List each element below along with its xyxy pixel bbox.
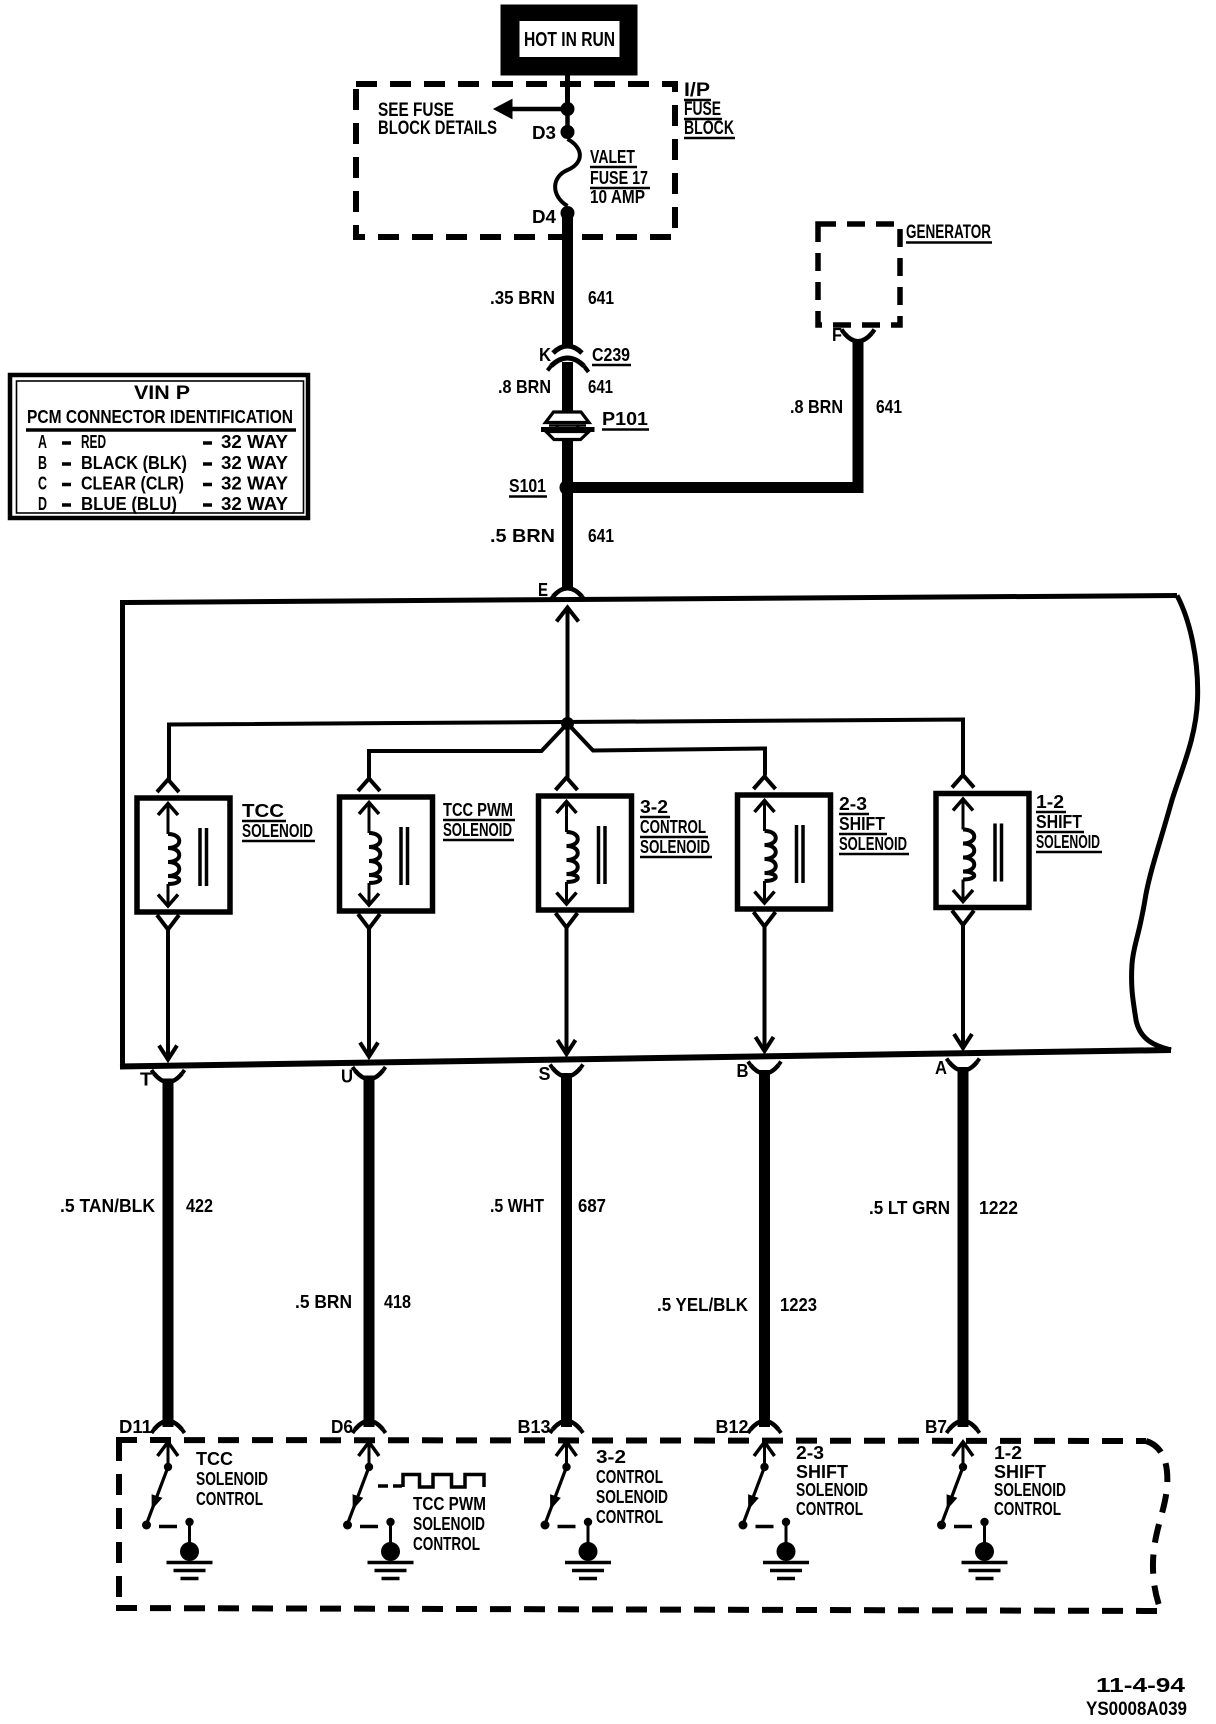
pin F of generator: [832, 325, 875, 345]
svg-text:32 WAY: 32 WAY: [221, 453, 288, 473]
svg-text:B: B: [38, 453, 47, 473]
svg-text:RED: RED: [81, 432, 106, 452]
1-2 shift solenoid control switch: [937, 1442, 973, 1530]
wire .35 BRN 641 (D4 to C239): [490, 213, 614, 346]
date 11-4-94: [1096, 1675, 1186, 1697]
wire .5 TAN/BLK 422: [60, 1079, 213, 1428]
svg-text:641: 641: [588, 288, 614, 308]
ground: [962, 1518, 1008, 1579]
pin E of PCM: [538, 580, 585, 601]
wire P101 to splice: [562, 439, 573, 587]
ground: [368, 1518, 414, 1579]
svg-text:CONTROL: CONTROL: [994, 1499, 1061, 1519]
ground: [167, 1518, 213, 1579]
svg-text:TCC: TCC: [196, 1449, 233, 1469]
wire solenoid 1-2 shift to output pin: [954, 925, 972, 1048]
svg-text:S: S: [539, 1064, 551, 1084]
pin D3: [532, 123, 575, 143]
svg-text:D4: D4: [532, 207, 556, 227]
label TCC SOLENOID CONTROL: [196, 1449, 268, 1509]
svg-text:11-4-94: 11-4-94: [1096, 1675, 1186, 1697]
svg-text:B: B: [737, 1061, 749, 1081]
solenoid TCC: [137, 780, 230, 930]
svg-text:A: A: [935, 1058, 947, 1078]
svg-text:SOLENOID: SOLENOID: [413, 1514, 485, 1534]
svg-text:.5 YEL/BLK: .5 YEL/BLK: [657, 1295, 748, 1315]
svg-text:BLOCK: BLOCK: [684, 118, 734, 139]
svg-text:B7: B7: [925, 1417, 947, 1437]
I/P fuse block dashed box: [356, 84, 675, 237]
wire .5 LT GRN 1222: [869, 1067, 1018, 1427]
svg-text:1222: 1222: [979, 1198, 1018, 1218]
svg-text:TCC PWM: TCC PWM: [413, 1494, 486, 1514]
pin B13 of transmission connector: [518, 1417, 584, 1437]
label TCC PWM SOLENOID: [443, 800, 515, 840]
PWM waveform: [378, 1475, 484, 1488]
internal bus wire lower (TCC PWM and 2-3): [369, 724, 765, 780]
pin S of PCM: [539, 1064, 584, 1084]
svg-text:BLOCK DETAILS: BLOCK DETAILS: [378, 118, 497, 139]
svg-text:PCM CONNECTOR IDENTIFICATION: PCM CONNECTOR IDENTIFICATION: [27, 407, 293, 427]
svg-text:418: 418: [384, 1292, 411, 1312]
svg-text:422: 422: [186, 1196, 213, 1216]
label 1-2 SHIFT SOLENOID CONTROL: [994, 1443, 1066, 1519]
label TCC SOLENOID: [242, 801, 315, 841]
svg-text:YS0008A039: YS0008A039: [1086, 1699, 1187, 1720]
svg-text:.5 BRN: .5 BRN: [490, 526, 555, 546]
svg-text:32 WAY: 32 WAY: [221, 494, 288, 514]
internal bus wire upper (TCC and 1-2): [169, 720, 963, 781]
wire solenoid 2-3 shift to output pin: [756, 927, 774, 1052]
wire from S101 to generator: [568, 340, 859, 493]
svg-text:32 WAY: 32 WAY: [221, 474, 288, 494]
ground: [763, 1518, 809, 1579]
svg-text:1223: 1223: [780, 1295, 817, 1315]
wire from junction to 3-2 solenoid: [566, 724, 570, 778]
wire .5 YEL/BLK 1223: [657, 1070, 817, 1427]
label 2-3 SHIFT SOLENOID CONTROL: [796, 1443, 868, 1519]
arrow to SEE FUSE BLOCK DETAILS: [378, 100, 568, 140]
pin B7 of transmission connector: [925, 1417, 980, 1437]
pin T of PCM: [140, 1070, 185, 1090]
label TCC PWM SOLENOID CONTROL: [413, 1494, 486, 1554]
junction node inside PCM: [561, 717, 574, 730]
svg-text:BLUE (BLU): BLUE (BLU): [81, 494, 177, 514]
svg-text:C: C: [38, 474, 47, 494]
VIN P PCM connector identification table: [10, 375, 308, 518]
svg-text:BLACK (BLK): BLACK (BLK): [81, 453, 187, 473]
svg-text:CONTROL: CONTROL: [596, 1467, 663, 1487]
svg-text:SOLENOID: SOLENOID: [796, 1480, 868, 1500]
svg-text:2-3: 2-3: [796, 1443, 824, 1463]
label GENERATOR: [906, 222, 992, 243]
wire .5 WHT 687: [490, 1073, 606, 1427]
2-3 shift solenoid control switch: [739, 1442, 775, 1530]
pin D6 of transmission connector: [331, 1417, 386, 1437]
svg-text:CONTROL: CONTROL: [640, 817, 706, 837]
svg-text:VALET: VALET: [590, 147, 635, 167]
svg-text:10 AMP: 10 AMP: [590, 187, 645, 207]
svg-text:SOLENOID: SOLENOID: [640, 837, 710, 857]
svg-text:E: E: [538, 580, 548, 600]
label 3-2 CONTROL SOLENOID CONTROL: [596, 1447, 668, 1527]
TCC solenoid control switch: [142, 1442, 178, 1530]
splice S101: [509, 476, 576, 497]
svg-text:FUSE: FUSE: [684, 99, 721, 120]
svg-text:SHIFT: SHIFT: [839, 814, 885, 834]
svg-text:B12: B12: [716, 1417, 749, 1437]
svg-text:SHIFT: SHIFT: [1036, 812, 1082, 832]
wire from HOT IN RUN to fuse block: [565, 75, 570, 110]
svg-text:SOLENOID: SOLENOID: [839, 834, 907, 854]
svg-text:3-2: 3-2: [596, 1447, 626, 1467]
svg-text:1-2: 1-2: [994, 1443, 1022, 1463]
svg-text:VIN P: VIN P: [134, 383, 190, 404]
svg-text:CONTROL: CONTROL: [413, 1534, 480, 1554]
pin D11 of transmission connector: [119, 1417, 185, 1437]
svg-text:SOLENOID: SOLENOID: [994, 1480, 1066, 1500]
svg-text:D3: D3: [532, 123, 556, 143]
TCC PWM solenoid control switch: [343, 1442, 379, 1530]
svg-text:A: A: [38, 432, 47, 452]
label 3-2 CONTROL SOLENOID: [640, 797, 712, 857]
svg-text:SHIFT: SHIFT: [796, 1462, 848, 1482]
svg-text:32 WAY: 32 WAY: [221, 432, 288, 452]
svg-text:TCC: TCC: [242, 801, 284, 821]
pin D4: [532, 206, 575, 227]
pin U of PCM: [341, 1067, 386, 1087]
wire .5 BRN 641 (S101 to PCM): [490, 526, 614, 546]
grommet P101: [542, 409, 650, 440]
pin B of PCM: [737, 1061, 782, 1081]
wire solenoid 3-2 control to output pin: [558, 928, 576, 1055]
svg-text:I/P: I/P: [684, 80, 710, 101]
wire .8 BRN 641 (C239 to P101): [498, 362, 613, 413]
wire label .8 BRN 641 (generator): [790, 397, 902, 417]
svg-text:TCC PWM: TCC PWM: [443, 800, 513, 820]
svg-text:641: 641: [588, 526, 614, 546]
document number YS0008A039: [1086, 1699, 1187, 1720]
svg-text:C239: C239: [592, 345, 630, 365]
svg-text:CONTROL: CONTROL: [596, 1507, 663, 1527]
svg-text:SOLENOID: SOLENOID: [596, 1487, 668, 1507]
label 1-2 SHIFT SOLENOID: [1036, 792, 1102, 852]
connector K C239: [539, 345, 631, 372]
svg-text:SOLENOID: SOLENOID: [196, 1469, 268, 1489]
wire solenoid TCC to output pin: [159, 930, 177, 1060]
PCM box: [120, 596, 1198, 1067]
svg-text:HOT IN RUN: HOT IN RUN: [524, 29, 615, 51]
svg-text:.5 WHT: .5 WHT: [490, 1196, 544, 1216]
svg-text:B13: B13: [518, 1417, 551, 1437]
wire .5 BRN 418: [295, 1076, 411, 1428]
svg-text:F: F: [832, 325, 842, 345]
svg-text:1-2: 1-2: [1036, 792, 1064, 812]
pin B12 of transmission connector: [716, 1417, 782, 1437]
svg-text:.5 LT GRN: .5 LT GRN: [869, 1198, 950, 1218]
svg-text:.5 TAN/BLK: .5 TAN/BLK: [60, 1196, 155, 1216]
svg-text:.5 BRN: .5 BRN: [295, 1292, 352, 1312]
svg-text:CONTROL: CONTROL: [196, 1489, 263, 1509]
svg-text:2-3: 2-3: [839, 794, 867, 814]
fuse VALET FUSE 17 10 AMP: [555, 139, 650, 207]
power source HOT IN RUN: [501, 5, 637, 75]
svg-text:P101: P101: [602, 409, 648, 429]
svg-text:GENERATOR: GENERATOR: [906, 222, 991, 243]
svg-text:.8 BRN: .8 BRN: [790, 397, 843, 417]
svg-text:T: T: [140, 1070, 152, 1090]
svg-text:SOLENOID: SOLENOID: [443, 820, 512, 840]
svg-text:3-2: 3-2: [640, 797, 668, 817]
svg-text:D6: D6: [331, 1417, 353, 1437]
svg-text:D: D: [38, 494, 47, 514]
3-2 control solenoid control switch: [541, 1442, 577, 1530]
svg-text:U: U: [341, 1067, 353, 1087]
wire solenoid TCC PWM to output pin: [360, 929, 378, 1057]
label 2-3 SHIFT SOLENOID: [839, 794, 909, 854]
svg-text:.8 BRN: .8 BRN: [498, 377, 551, 397]
label I/P FUSE BLOCK: [684, 80, 735, 139]
svg-text:.35 BRN: .35 BRN: [490, 288, 555, 308]
svg-text:CLEAR (CLR): CLEAR (CLR): [81, 474, 184, 494]
pin A of PCM: [935, 1058, 980, 1078]
svg-text:641: 641: [588, 377, 613, 397]
svg-text:CONTROL: CONTROL: [796, 1499, 863, 1519]
solenoid 2-3 shift: [738, 777, 831, 927]
svg-text:FUSE 17: FUSE 17: [590, 168, 648, 188]
generator dashed box: [818, 224, 900, 325]
transmission dashed box: [116, 1440, 1167, 1611]
solenoid 3-2 control: [539, 778, 632, 928]
svg-text:SOLENOID: SOLENOID: [1036, 832, 1100, 852]
junction node in fuse block: [561, 102, 575, 132]
svg-text:K: K: [539, 345, 551, 365]
ground: [565, 1518, 611, 1579]
solenoid TCC PWM: [340, 779, 433, 929]
solenoid 1-2 shift: [936, 775, 1029, 925]
wire E into PCM with arrow: [557, 608, 579, 724]
svg-text:D11: D11: [119, 1417, 152, 1437]
svg-text:SHIFT: SHIFT: [994, 1462, 1046, 1482]
svg-text:SOLENOID: SOLENOID: [242, 821, 313, 841]
svg-text:687: 687: [578, 1196, 606, 1216]
svg-text:S101: S101: [509, 476, 546, 496]
svg-text:641: 641: [876, 397, 902, 417]
